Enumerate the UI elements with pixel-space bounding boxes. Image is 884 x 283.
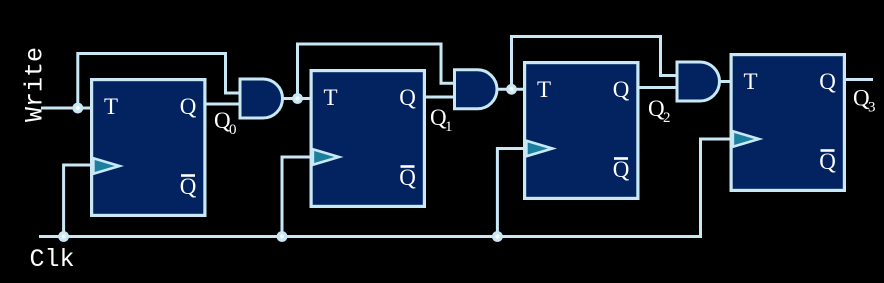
wire Write input bbox=[41, 107, 91, 110]
wire AND2 output to FF3 T input bbox=[497, 88, 525, 91]
AND gate G1 bbox=[240, 79, 283, 118]
svg-text:Q: Q bbox=[819, 69, 836, 94]
label Q1 bbox=[430, 105, 453, 135]
node junction J3 after AND2 bbox=[506, 84, 517, 95]
svg-text:T: T bbox=[743, 69, 757, 94]
svg-text:2: 2 bbox=[663, 110, 671, 126]
AND gate G3 bbox=[677, 62, 720, 101]
flip-flop FF3 label Qbar bbox=[613, 157, 630, 182]
wire Clk riser to FF2 clock bbox=[282, 157, 311, 237]
flip-flop FF4 label Qbar bbox=[819, 149, 836, 174]
label Q0 bbox=[214, 108, 237, 138]
wire Q3 output from FF4 Q bbox=[845, 78, 874, 81]
wire Clk bus with riser to FF4 clock bbox=[39, 139, 731, 237]
node Clk junction K1 bbox=[58, 231, 69, 242]
svg-text:Q: Q bbox=[613, 157, 630, 182]
flip-flop FF4 box bbox=[731, 55, 844, 191]
label Q3 bbox=[853, 86, 876, 116]
AND gate G2 bbox=[455, 70, 498, 109]
wire feedback loop 3 (AND2 out to AND3 upper input) bbox=[512, 37, 679, 90]
wire Q1 from FF2 Q to AND2 lower input bbox=[424, 96, 456, 99]
svg-text:Q: Q bbox=[819, 149, 836, 174]
wire Clk riser to FF3 clock bbox=[497, 149, 524, 237]
svg-text:T: T bbox=[537, 77, 551, 102]
svg-text:Q: Q bbox=[180, 94, 197, 119]
svg-text:Q: Q bbox=[180, 174, 197, 199]
wire feedback loop 1 (Write to AND1 upper input) bbox=[78, 54, 241, 109]
flip-flop FF1 label Qbar bbox=[180, 174, 197, 199]
label Q2 bbox=[648, 96, 671, 126]
node junction J1 on Write line bbox=[72, 103, 83, 114]
flip-flop FF4 label Q bbox=[819, 69, 836, 94]
flip-flop FF3 label T bbox=[537, 77, 551, 102]
flip-flop FF3 label Q bbox=[613, 77, 630, 102]
svg-text:3: 3 bbox=[868, 100, 876, 116]
label Clk bbox=[30, 245, 75, 274]
flip-flop FF2 label Qbar bbox=[399, 165, 416, 190]
wire Q2 from FF3 Q to AND3 lower input bbox=[638, 86, 678, 89]
svg-text:Clk: Clk bbox=[30, 245, 75, 274]
svg-text:Q: Q bbox=[399, 85, 416, 110]
wire feedback loop 2 (AND1 out to AND2 upper input) bbox=[298, 44, 456, 99]
svg-text:0: 0 bbox=[229, 122, 237, 138]
svg-text:1: 1 bbox=[445, 119, 453, 135]
svg-text:T: T bbox=[104, 94, 118, 119]
label Write bbox=[21, 47, 50, 122]
node junction J2 after AND1 bbox=[292, 93, 303, 104]
flip-flop FF2 label T bbox=[323, 85, 337, 110]
svg-text:Write: Write bbox=[21, 47, 50, 122]
flip-flop FF2 label Q bbox=[399, 85, 416, 110]
wire AND3 output to FF4 T input bbox=[720, 80, 732, 83]
svg-text:Q: Q bbox=[399, 165, 416, 190]
svg-text:Q: Q bbox=[613, 77, 630, 102]
flip-flop FF2 box bbox=[311, 71, 424, 207]
flip-flop FF3 box bbox=[525, 63, 638, 199]
flip-flop FF4 label T bbox=[743, 69, 757, 94]
flip-flop FF4 clock triangle bbox=[733, 131, 759, 147]
svg-text:T: T bbox=[323, 85, 337, 110]
node Clk junction K3 bbox=[492, 231, 503, 242]
flip-flop FF3 clock triangle bbox=[526, 141, 552, 157]
flip-flop FF1 box bbox=[92, 80, 205, 216]
flip-flop FF2 clock triangle bbox=[313, 149, 339, 165]
flip-flop FF1 label T bbox=[104, 94, 118, 119]
flip-flop FF1 clock triangle bbox=[93, 158, 119, 174]
wire AND1 output to FF2 T input bbox=[283, 97, 312, 100]
node Clk junction K2 bbox=[277, 231, 288, 242]
wire Clk riser to FF1 clock bbox=[64, 165, 91, 237]
wire Q0 from FF1 Q to AND1 lower input bbox=[205, 103, 241, 106]
flip-flop FF1 label Q bbox=[180, 94, 197, 119]
